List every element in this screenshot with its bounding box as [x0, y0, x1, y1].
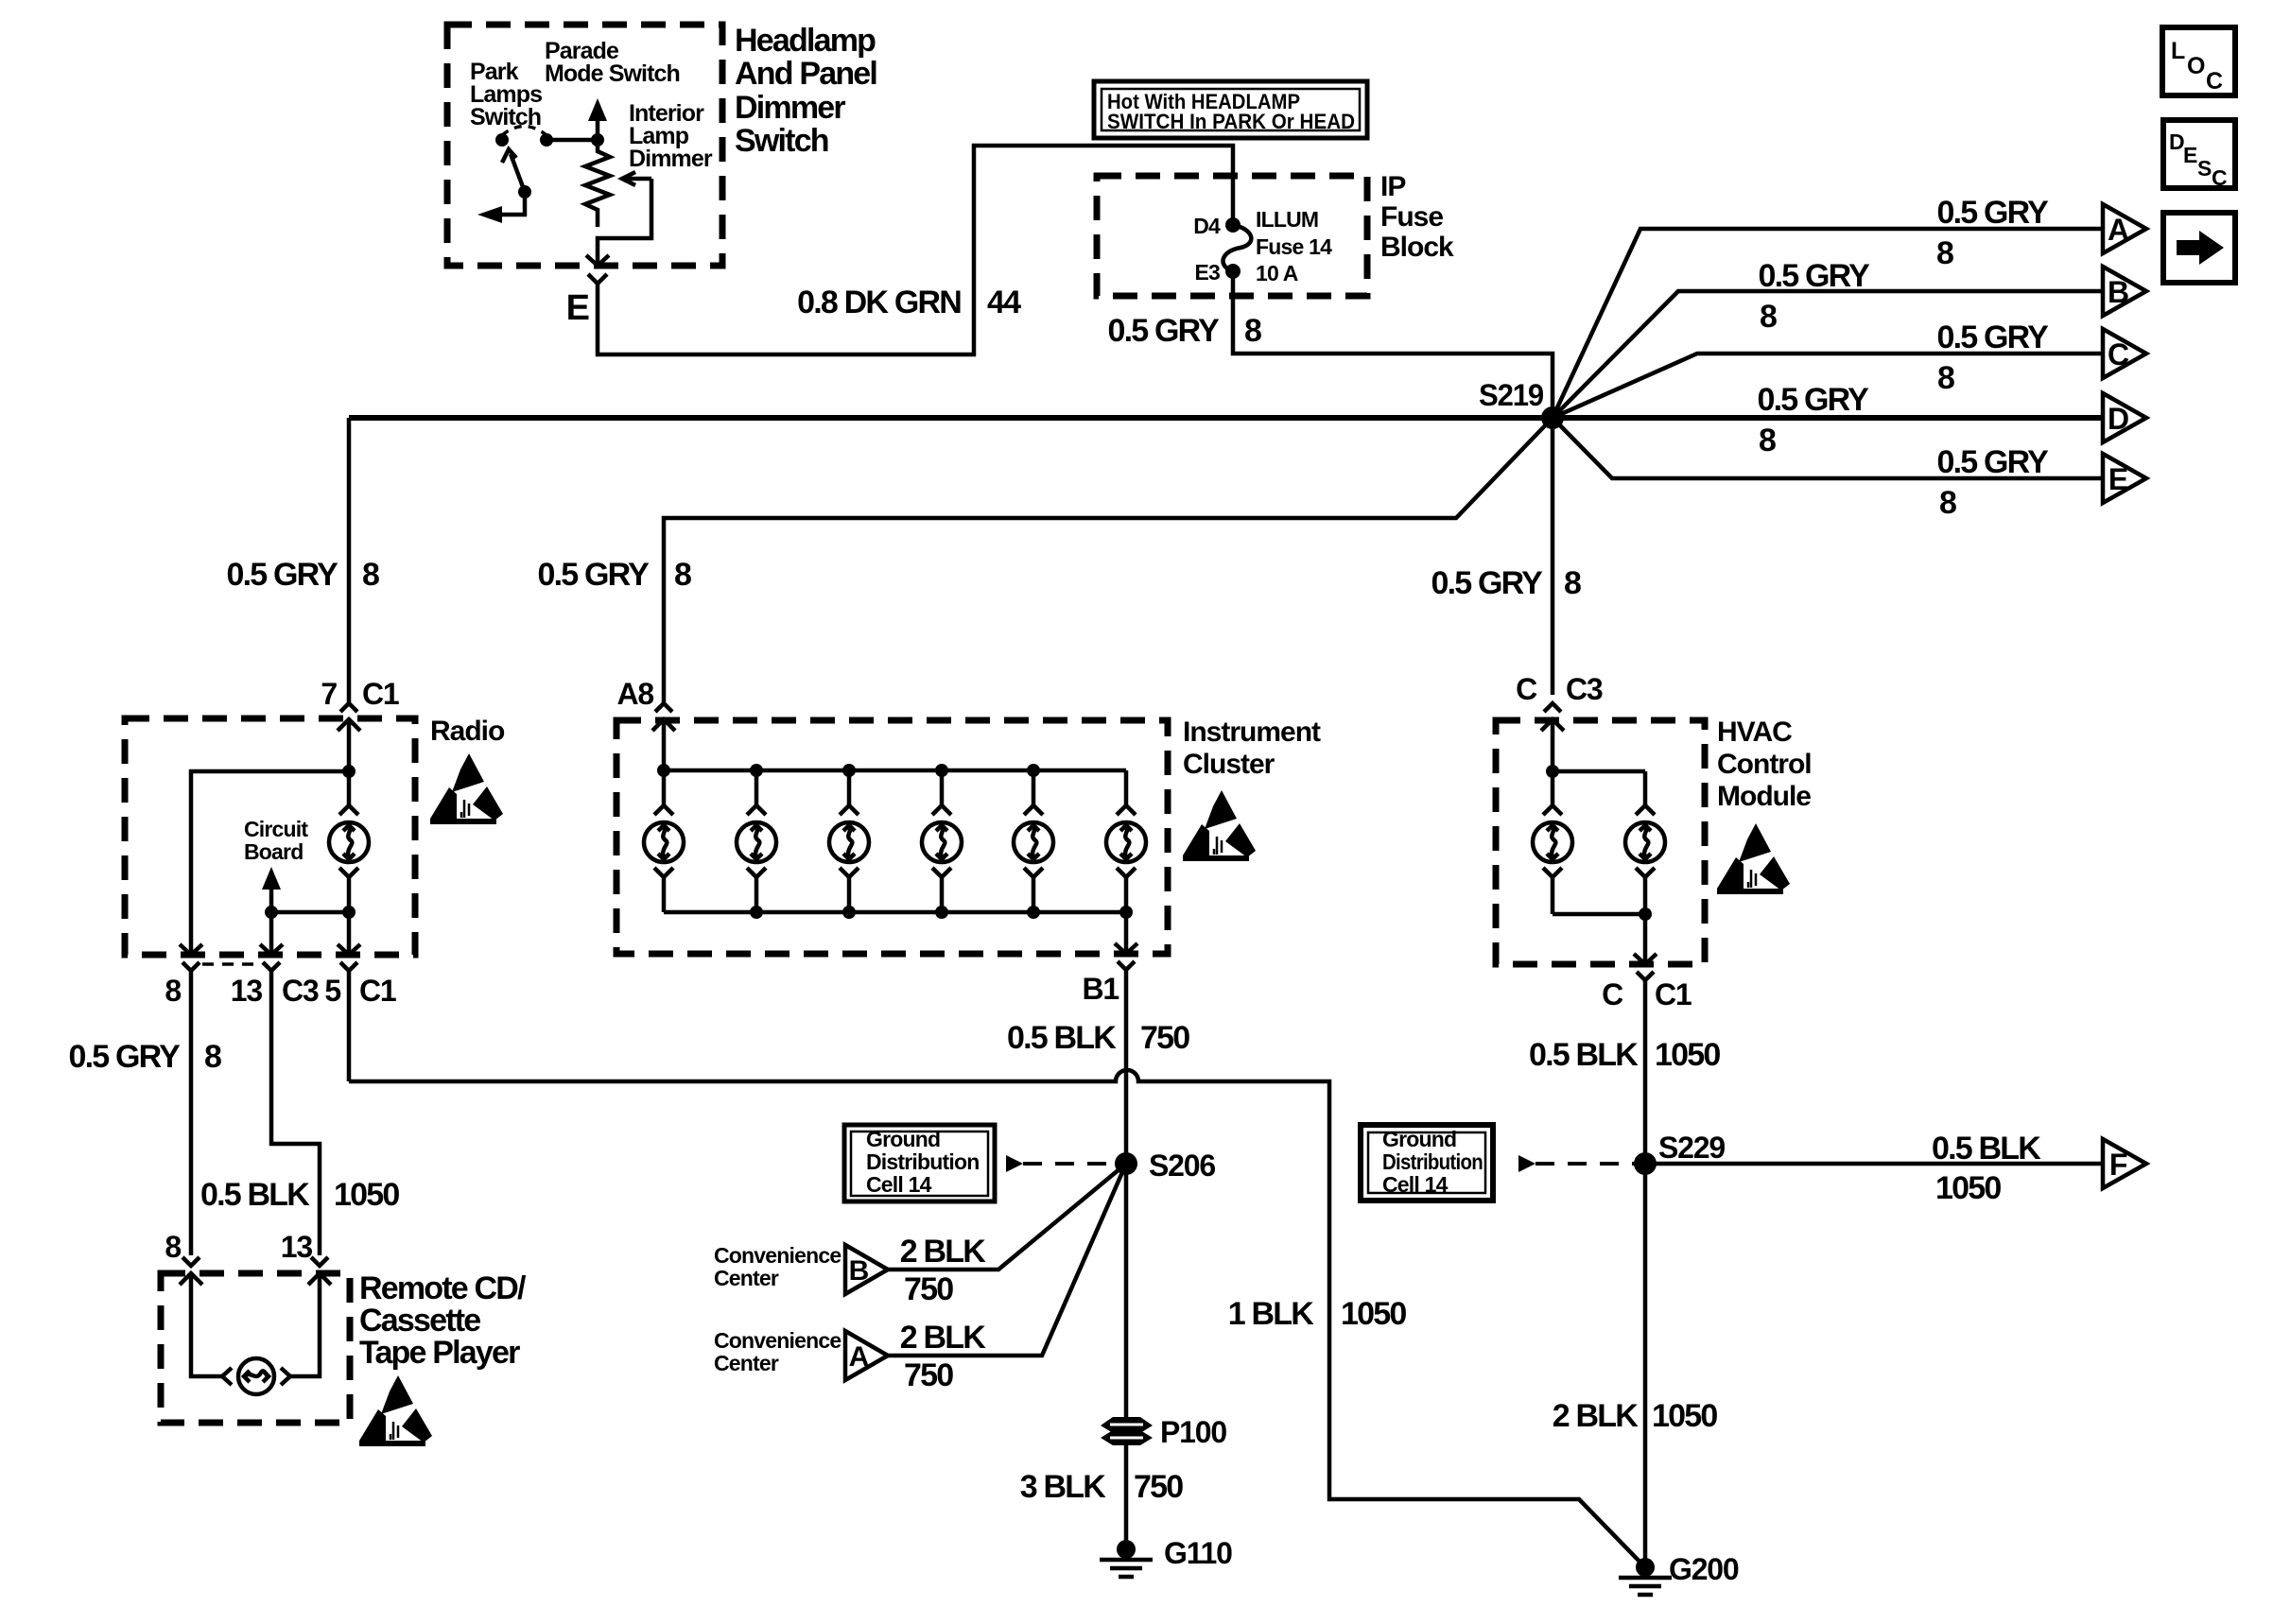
svg-text:13: 13: [231, 974, 263, 1008]
DESC reference box: [2163, 120, 2235, 188]
out-arrow D: [2103, 393, 2146, 442]
svg-text:B1: B1: [1082, 972, 1119, 1006]
pin E exit arrow: [586, 248, 609, 266]
svg-text:E: E: [2108, 462, 2128, 496]
svg-text:0.5 GRY: 0.5 GRY: [1431, 565, 1543, 601]
svg-text:Cell 14: Cell 14: [866, 1172, 932, 1197]
hvac bulb 2: [1643, 771, 1648, 914]
esd icon (cd player): [359, 1375, 432, 1446]
node: switch common junction: [591, 133, 604, 147]
svg-text:1050: 1050: [1652, 1398, 1717, 1434]
pin 13 (cd player top): [311, 1257, 328, 1266]
svg-text:Ground: Ground: [1382, 1127, 1456, 1151]
pin 5 C1 (radio bottom): [338, 944, 360, 955]
out-arrow A: [2103, 204, 2146, 253]
svg-text:1050: 1050: [1935, 1170, 2001, 1206]
connector dash between pins 8 and 13: [202, 962, 260, 966]
svg-text:1050: 1050: [1655, 1037, 1720, 1073]
wire: main bus left leg down to radio (0.5 GRY 8): [347, 418, 352, 704]
svg-text:13: 13: [281, 1230, 313, 1264]
svg-text:44: 44: [987, 285, 1021, 320]
svg-text:D4: D4: [1193, 214, 1221, 238]
svg-text:Fuse: Fuse: [1380, 201, 1443, 233]
svg-text:750: 750: [904, 1271, 953, 1307]
esd icon (hvac): [1717, 823, 1790, 894]
svg-text:S206: S206: [1149, 1149, 1215, 1183]
wire: S206 down to P100: [1124, 1164, 1129, 1419]
svg-text:5: 5: [324, 974, 340, 1008]
wire: S219 down to HVAC (0.5 GRY 8): [1551, 418, 1555, 695]
svg-text:8: 8: [362, 557, 379, 593]
svg-text:8: 8: [165, 974, 181, 1008]
park lamps switch contacts: [495, 133, 509, 147]
svg-text:Remote CD/: Remote CD/: [359, 1270, 527, 1306]
svg-text:0.5 GRY: 0.5 GRY: [1757, 382, 1869, 418]
pin 13 C3 (radio bottom): [260, 944, 283, 955]
wire: E to fuse block (0.8 DK GRN 44): [598, 146, 1233, 354]
svg-text:Fuse 14: Fuse 14: [1256, 234, 1332, 259]
svg-text:C1: C1: [359, 974, 396, 1008]
svg-text:8: 8: [1760, 299, 1777, 335]
cluster bulb 3: [842, 764, 856, 777]
svg-text:8: 8: [1936, 235, 1953, 271]
IP fuse block box: [1097, 176, 1367, 296]
bulb: radio illumination lamp: [329, 805, 369, 877]
out-arrow F: [2103, 1139, 2146, 1188]
park lamps switch blade: [518, 185, 531, 199]
svg-text:Ground: Ground: [866, 1127, 940, 1151]
svg-text:2 BLK: 2 BLK: [1553, 1398, 1639, 1434]
svg-text:8: 8: [165, 1230, 181, 1264]
svg-text:Dimmer: Dimmer: [735, 90, 845, 126]
esd icon (radio): [430, 753, 503, 824]
svg-text:A: A: [849, 1341, 869, 1373]
svg-text:G200: G200: [1669, 1552, 1739, 1586]
svg-text:S229: S229: [1658, 1131, 1725, 1165]
svg-text:A: A: [2108, 213, 2129, 247]
svg-text:2 BLK: 2 BLK: [900, 1234, 986, 1270]
wire: convenience A to S206 (2 BLK 750): [888, 1164, 1126, 1356]
svg-text:0.5 GRY: 0.5 GRY: [1936, 444, 2049, 480]
svg-text:And Panel: And Panel: [735, 56, 876, 92]
cluster bulb 2: [750, 764, 763, 777]
out-arrow E: [2103, 454, 2146, 503]
svg-text:O: O: [2187, 53, 2205, 79]
pin 8 (cd player top): [182, 1257, 200, 1266]
wire: P100 to G110 (3 BLK 750): [1124, 1443, 1129, 1543]
svg-text:L: L: [2171, 38, 2185, 64]
out-arrow C: [2103, 329, 2146, 378]
node: radio internal junction: [342, 765, 356, 778]
remote CD / cassette tape player box: [161, 1273, 350, 1423]
hvac bulb 1: [1551, 771, 1555, 914]
svg-text:C: C: [2108, 337, 2129, 371]
svg-text:F: F: [2109, 1148, 2127, 1182]
pin C C1 (hvac bottom): [1643, 914, 1648, 964]
svg-text:750: 750: [904, 1357, 953, 1393]
svg-text:Cluster: Cluster: [1183, 749, 1275, 780]
svg-text:0.5 GRY: 0.5 GRY: [1936, 195, 2049, 231]
svg-text:0.5 GRY: 0.5 GRY: [1936, 320, 2049, 355]
svg-text:Headlamp: Headlamp: [735, 23, 876, 59]
svg-text:Dimmer: Dimmer: [629, 146, 713, 172]
node: radio lamp to ground junction: [342, 906, 356, 919]
cluster bulb 4: [935, 764, 948, 777]
wire: pin 13 internal: [269, 912, 274, 955]
svg-text:E: E: [2183, 143, 2197, 167]
wire: hvac C1 to S229 (0.5 BLK 1050): [1643, 980, 1648, 1164]
hvac control module box: [1496, 720, 1705, 964]
hot with headlamp callout box: [1094, 81, 1367, 138]
splice S206: [1115, 1152, 1137, 1175]
svg-text:3 BLK: 3 BLK: [1020, 1469, 1106, 1505]
wire: convenience B to S206 (2 BLK 750): [888, 1164, 1126, 1270]
svg-text:Radio: Radio: [430, 716, 505, 747]
svg-text:C: C: [2212, 165, 2227, 190]
wire: main bus through S219 (0.5 GRY): [349, 415, 2103, 421]
wire: S219 to A: [1553, 229, 2103, 418]
pin B1 (cluster bottom): [1124, 912, 1129, 954]
cluster bulb 5: [1027, 764, 1040, 777]
wire: B1 to S206 (0.5 BLK 750): [1124, 970, 1129, 1164]
ground distribution cell 14 callout (right): [1361, 1125, 1493, 1201]
svg-text:Block: Block: [1380, 232, 1454, 263]
svg-text:C1: C1: [1655, 977, 1692, 1011]
svg-text:HVAC: HVAC: [1717, 717, 1792, 748]
svg-text:8: 8: [1564, 565, 1581, 601]
svg-text:10 A: 10 A: [1256, 261, 1298, 285]
svg-text:Module: Module: [1717, 781, 1811, 812]
instrument cluster box: [616, 720, 1168, 954]
svg-text:0.5 GRY: 0.5 GRY: [1758, 258, 1870, 294]
forward-arrow reference box: [2163, 213, 2235, 283]
svg-text:S: S: [2197, 156, 2212, 181]
svg-text:B: B: [849, 1255, 869, 1287]
wire: S219 to B: [1553, 291, 2103, 418]
ground distribution cell 14 callout (left): [844, 1125, 995, 1201]
svg-text:Convenience: Convenience: [714, 1328, 841, 1353]
svg-text:8: 8: [1244, 313, 1261, 349]
hvac internal top bus: [1553, 719, 1645, 771]
radio box: [125, 718, 415, 955]
svg-text:A8: A8: [616, 677, 653, 711]
svg-text:C3: C3: [282, 974, 319, 1008]
svg-text:7: 7: [321, 677, 337, 711]
wire: S229 to F (0.5 BLK 1050): [1645, 1162, 2103, 1166]
svg-text:C: C: [2206, 68, 2223, 95]
svg-text:0.5 GRY: 0.5 GRY: [537, 557, 650, 593]
svg-text:2 BLK: 2 BLK: [900, 1320, 986, 1356]
svg-text:C: C: [1516, 672, 1537, 706]
cluster top bus: [664, 719, 1126, 770]
svg-text:0.5 BLK: 0.5 BLK: [1529, 1037, 1639, 1073]
fuse 14 symbol: [1225, 217, 1241, 233]
svg-text:D: D: [2108, 402, 2128, 436]
svg-text:S219: S219: [1479, 378, 1543, 412]
svg-text:0.5 BLK: 0.5 BLK: [1007, 1020, 1117, 1056]
ground G110: [1100, 1540, 1153, 1577]
svg-text:8: 8: [204, 1039, 221, 1075]
svg-text:C: C: [1602, 977, 1623, 1011]
svg-text:Switch: Switch: [735, 123, 828, 159]
svg-text:0.5 GRY: 0.5 GRY: [226, 557, 338, 593]
inline connector P100: [1101, 1417, 1153, 1433]
svg-text:1050: 1050: [1341, 1296, 1406, 1332]
svg-text:8: 8: [1937, 360, 1954, 396]
svg-text:0.8 DK GRN: 0.8 DK GRN: [797, 285, 961, 320]
svg-text:1050: 1050: [334, 1177, 399, 1213]
bulb: cd player illumination lamp: [222, 1368, 232, 1385]
svg-text:IP: IP: [1380, 171, 1405, 202]
svg-text:SWITCH In PARK Or HEAD: SWITCH In PARK Or HEAD: [1107, 110, 1355, 133]
cluster bottom bus: [664, 910, 1126, 915]
svg-text:B: B: [2108, 275, 2128, 309]
svg-text:Control: Control: [1717, 749, 1812, 780]
svg-text:Center: Center: [714, 1266, 779, 1290]
svg-text:0.5 BLK: 0.5 BLK: [200, 1177, 310, 1213]
svg-text:750: 750: [1140, 1020, 1189, 1056]
esd icon (instrument cluster): [1183, 790, 1256, 861]
svg-text:Center: Center: [714, 1351, 779, 1375]
svg-text:Board: Board: [244, 839, 303, 864]
hvac internal bottom bus: [1553, 912, 1645, 917]
svg-text:Circuit: Circuit: [244, 817, 308, 841]
svg-text:1 BLK: 1 BLK: [1228, 1296, 1314, 1332]
svg-text:8: 8: [1759, 423, 1776, 458]
dashed pointer to S229: [1518, 1155, 1536, 1172]
out-arrow B: [2103, 267, 2146, 316]
dashed pointer to S206: [1006, 1155, 1023, 1172]
svg-text:0.5 BLK: 0.5 BLK: [1932, 1131, 2041, 1166]
svg-text:Instrument: Instrument: [1183, 717, 1321, 748]
wire: fuse to S219 (0.5 GRY 8): [1233, 271, 1553, 418]
svg-text:E3: E3: [1194, 260, 1220, 285]
wire: S219 to E: [1553, 418, 2103, 478]
LOC reference box: [2162, 27, 2235, 95]
wire: S219 down-left to instrument cluster (0.5 GRY 8): [664, 418, 1553, 704]
wire: radio internal feed: [191, 719, 349, 955]
splice S229: [1634, 1152, 1657, 1175]
svg-text:Cell 14: Cell 14: [1382, 1172, 1449, 1197]
svg-text:C1: C1: [362, 677, 399, 711]
interior lamp dimmer rheostat: [585, 140, 610, 227]
svg-text:8: 8: [674, 557, 691, 593]
svg-text:0.5 GRY: 0.5 GRY: [68, 1039, 181, 1075]
pin 8 (radio bottom): [180, 944, 202, 955]
headlamp and panel dimmer switch box: [447, 25, 722, 266]
wire: S219 to C: [1553, 354, 2103, 418]
ground G200: [1619, 1558, 1672, 1595]
splice S219: [1541, 406, 1564, 429]
svg-text:P100: P100: [1160, 1415, 1226, 1449]
parade mode switch arrow: [588, 98, 607, 121]
svg-text:G110: G110: [1164, 1536, 1232, 1570]
wire: radio C1 to G200 with hop over B1 wire: [349, 1070, 1645, 1567]
svg-text:D: D: [2169, 130, 2184, 154]
wire: contact to junction: [547, 138, 598, 143]
svg-text:0.5 GRY: 0.5 GRY: [1107, 313, 1220, 349]
svg-text:Cassette: Cassette: [359, 1303, 480, 1339]
svg-text:Distribution: Distribution: [1382, 1149, 1483, 1174]
svg-text:8: 8: [1939, 485, 1956, 521]
svg-text:C3: C3: [1566, 672, 1603, 706]
svg-text:ILLUM: ILLUM: [1256, 207, 1318, 232]
svg-text:Tape Player: Tape Player: [359, 1335, 520, 1371]
svg-text:Distribution: Distribution: [866, 1149, 979, 1174]
rheostat wiper arrow: [622, 172, 651, 185]
svg-text:E: E: [566, 288, 590, 328]
svg-text:750: 750: [1134, 1469, 1183, 1505]
svg-text:Convenience: Convenience: [714, 1243, 841, 1268]
cluster bulb 1: [657, 764, 670, 777]
cluster bulb 6: [1119, 906, 1133, 919]
svg-text:Mode Switch: Mode Switch: [545, 60, 680, 87]
circuit board arrow: [269, 889, 274, 912]
wire: S229 down to G200 (2 BLK 1050): [1643, 1164, 1648, 1564]
